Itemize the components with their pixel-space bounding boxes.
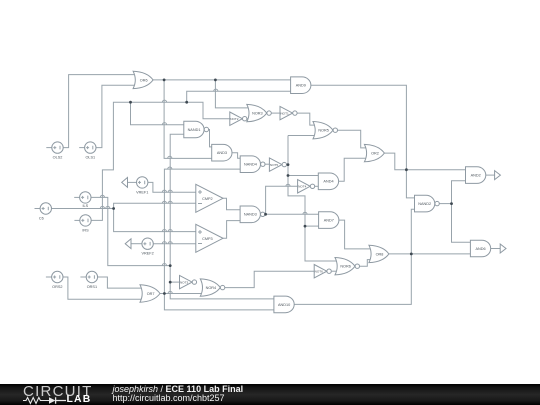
wire NOT6 output to NOR6 input B bbox=[332, 270, 341, 272]
node flag VREF1 bbox=[122, 178, 128, 188]
wire VREF1 to CMP2 plus input bbox=[148, 182, 197, 192]
nand-gate NAND3 bbox=[240, 206, 265, 223]
node OR6 output branch 2 bbox=[214, 79, 217, 82]
svg-text:NOT5: NOT5 bbox=[270, 163, 279, 167]
node NAND2 output bbox=[450, 202, 453, 205]
wire C6 left stub bbox=[35, 208, 41, 210]
inverter NOT2 bbox=[230, 112, 247, 125]
svg-text:NOT2: NOT2 bbox=[230, 117, 239, 121]
inverter NOT5 bbox=[269, 158, 286, 171]
svg-text:AND10: AND10 bbox=[278, 303, 290, 307]
wire hop crossover 17 bbox=[100, 206, 104, 208]
svg-text:NOT1: NOT1 bbox=[280, 111, 289, 115]
svg-text:NOR4: NOR4 bbox=[206, 286, 217, 290]
nand-gate NAND4 bbox=[240, 156, 265, 173]
svg-text:NAND1: NAND1 bbox=[188, 128, 201, 132]
or-gate OR7 bbox=[140, 285, 160, 302]
voltage source OLS2 bbox=[52, 142, 63, 160]
svg-text:NOR6: NOR6 bbox=[340, 265, 351, 269]
node NOT5 output bbox=[287, 163, 290, 166]
wire hop crossover 4 bbox=[168, 156, 172, 158]
and-gate AND7 bbox=[319, 212, 339, 229]
wire hop crossover 19 bbox=[303, 212, 307, 214]
wire hop crossover 16 bbox=[100, 195, 104, 197]
wire ORS2 left stub bbox=[46, 276, 52, 278]
wire OR6 output to AND9 input A bbox=[153, 79, 291, 81]
node ILS net at NOT3 column bbox=[169, 264, 172, 267]
svg-text:AND9: AND9 bbox=[296, 84, 306, 88]
wire OR8 output to AND6 input B bbox=[389, 253, 470, 255]
and-gate AND3 bbox=[212, 144, 232, 161]
wire NOT1 output to NOR5 input A bbox=[297, 113, 316, 125]
inverter NOT3 bbox=[180, 275, 197, 288]
wire hop crossover 2 bbox=[214, 89, 218, 91]
nor-gate NOR4 bbox=[200, 279, 225, 296]
svg-text:OLS2: OLS2 bbox=[53, 156, 63, 160]
wire CMP2 output to NAND3 input A bbox=[223, 198, 240, 209]
svg-text:IRS: IRS bbox=[82, 228, 89, 232]
wire NAND1 output to AND3 input A bbox=[208, 130, 211, 147]
wire OR2 output to node bbox=[385, 153, 407, 170]
wire hop crossover 1 bbox=[162, 100, 166, 102]
wire hop crossover 14 bbox=[162, 264, 166, 266]
svg-text:AND6: AND6 bbox=[476, 247, 486, 251]
and-gate AND4 bbox=[318, 173, 338, 190]
wire ORS2 to OR7 input B bbox=[63, 277, 144, 299]
output port at AND6 bbox=[500, 244, 506, 253]
wire hop crossover 20 bbox=[286, 184, 290, 186]
node OR6 output branch 1 bbox=[163, 79, 166, 82]
svg-text:OR6: OR6 bbox=[140, 78, 148, 82]
wire OLS1 left stub bbox=[79, 147, 84, 149]
wire ILS net to NAND1 input B bbox=[170, 134, 274, 299]
wire CMP3 output to NAND3 input B bbox=[223, 221, 240, 239]
node ILS net at NOT3 input bbox=[169, 281, 172, 284]
node IRS net at AND9 branch bbox=[185, 101, 188, 104]
node OR7 output bbox=[163, 292, 166, 295]
voltage source C6 bbox=[39, 203, 52, 221]
svg-text:CMP2: CMP2 bbox=[202, 197, 213, 201]
wire IRS to NOT2 input bbox=[91, 102, 230, 220]
svg-text:AND3: AND3 bbox=[217, 151, 227, 155]
wire OLS2 left stub bbox=[46, 147, 52, 149]
wire hop crossover 18 bbox=[106, 206, 110, 208]
wire AND7 output to OR8 input A bbox=[339, 220, 372, 249]
wire NOT2 output to NOR3 input B bbox=[247, 118, 250, 120]
voltage source IRS bbox=[80, 215, 91, 233]
or-gate OR6 bbox=[133, 71, 153, 88]
svg-text:NOT3: NOT3 bbox=[180, 280, 189, 284]
wire node IRS branch up to AND9 input B bbox=[187, 91, 291, 102]
wire ORS1 to OR7 input A bbox=[98, 277, 144, 288]
wire ILS down and right to node bbox=[91, 197, 170, 265]
svg-text:OR7: OR7 bbox=[147, 292, 155, 296]
svg-text:VREF1: VREF1 bbox=[136, 190, 148, 194]
svg-text:NAND3: NAND3 bbox=[244, 213, 257, 217]
wire NOT4 output to AND4 input B bbox=[315, 185, 318, 187]
inverter NOT6 bbox=[314, 265, 331, 278]
svg-text:CMP3: CMP3 bbox=[202, 237, 213, 241]
wire IRS left stub bbox=[74, 219, 79, 221]
and-gate AND2 bbox=[466, 167, 486, 184]
inverter NOT4 bbox=[298, 180, 315, 193]
wire OR7 net down to AND10 input B bbox=[164, 294, 274, 310]
wire hop crossover 3 bbox=[162, 123, 166, 125]
wire C6 to CMP3 plus input bbox=[114, 209, 197, 232]
voltage source ORS2 bbox=[52, 271, 63, 289]
CircuitLab logo resistor and diode symbol bbox=[22, 395, 70, 405]
voltage source OLS1 bbox=[85, 142, 96, 160]
wire C6 to node bbox=[52, 208, 114, 210]
wire NAND2 output down to AND6 input A bbox=[452, 204, 471, 243]
node C6 net bbox=[112, 207, 115, 210]
voltage source ORS1 bbox=[86, 271, 97, 289]
wire NAND3 output to AND7 input A bbox=[263, 213, 318, 215]
wire NAND4 output to NOT5 input bbox=[263, 163, 270, 165]
nand-gate NAND1 bbox=[184, 121, 209, 138]
svg-text:NOT6: NOT6 bbox=[315, 269, 324, 273]
svg-text:NAND4: NAND4 bbox=[244, 163, 257, 167]
svg-text:NOT4: NOT4 bbox=[298, 185, 307, 189]
nor-gate NOR3 bbox=[247, 104, 271, 121]
inverter NOT1 bbox=[280, 106, 297, 119]
voltage source ILS bbox=[80, 192, 91, 209]
CircuitLab logo text CIRCUIT bbox=[23, 386, 93, 397]
wire hop crossover 11 bbox=[168, 230, 172, 232]
wire hop crossover 5 bbox=[168, 167, 172, 169]
node OR2 output joins AND9 column bbox=[405, 168, 408, 171]
wire NOR6 output to OR8 input B bbox=[360, 260, 373, 267]
wire node to AND2 input A bbox=[406, 169, 465, 171]
node IRS net at NAND1 branch bbox=[129, 101, 132, 104]
node OR8 output joins AND10 column bbox=[410, 253, 413, 256]
wire VREF2 flag stub bbox=[131, 243, 142, 245]
wire OR7 net up to NAND4 input B bbox=[164, 169, 240, 293]
or-gate OR2 bbox=[364, 144, 384, 161]
nor-gate NOR5 bbox=[313, 122, 337, 139]
output port at AND2 bbox=[495, 171, 501, 180]
wire OR7 output to NOR4 input B bbox=[158, 293, 203, 295]
svg-text:AND7: AND7 bbox=[324, 219, 334, 223]
svg-text:OR2: OR2 bbox=[371, 152, 379, 156]
wire VREF1 flag stub bbox=[128, 181, 137, 183]
wire IRS branch to NAND1 input A bbox=[131, 102, 184, 125]
wire OLS2 to OR6 input A bbox=[63, 75, 137, 148]
wire hop crossover 9 bbox=[168, 201, 172, 203]
and-gate AND6 bbox=[470, 240, 490, 257]
svg-text:C6: C6 bbox=[39, 216, 44, 220]
node flag VREF2 bbox=[125, 239, 131, 249]
wire NAND2 output to node bbox=[438, 203, 451, 205]
wire ILS left stub bbox=[74, 196, 79, 198]
comparator CMP2 bbox=[196, 184, 223, 212]
voltage source VREF2 bbox=[141, 238, 153, 256]
wire hop crossover 13 bbox=[168, 242, 172, 244]
wire AND6 output to port bbox=[491, 248, 500, 250]
wire hop crossover 15 bbox=[168, 291, 172, 293]
svg-text:ILS: ILS bbox=[82, 204, 88, 208]
wire AND3 output to NAND4 input A bbox=[232, 153, 240, 159]
node NOT5 net at AND4 input bbox=[287, 174, 290, 177]
comparator CMP3 bbox=[196, 224, 223, 252]
wire NOT5 net to NOR5 input B bbox=[288, 135, 316, 137]
svg-text:OLS1: OLS1 bbox=[85, 156, 95, 160]
svg-text:NOR3: NOR3 bbox=[252, 112, 263, 116]
wire NOR4 output to NOT6 input bbox=[225, 271, 314, 287]
nand-gate NAND2 bbox=[415, 195, 440, 212]
wire OR6 output branch down to NOR3 input A bbox=[215, 80, 250, 108]
wire ILS net to NOT3 input bbox=[170, 281, 179, 283]
CircuitLab logo text LAB bbox=[67, 396, 92, 404]
svg-text:AND4: AND4 bbox=[323, 180, 333, 184]
svg-text:AND2: AND2 bbox=[471, 174, 481, 178]
svg-text:VREF2: VREF2 bbox=[141, 252, 153, 256]
wire NOT5 output stub bbox=[287, 164, 288, 166]
wire hop crossover 12 bbox=[162, 242, 166, 244]
wire AND9 output down to NAND2 input A bbox=[311, 85, 414, 198]
wire NOR5 output to OR2 input A bbox=[338, 130, 368, 148]
svg-text:OR8: OR8 bbox=[376, 252, 384, 256]
wire NOR3 output to NOT1 input bbox=[271, 112, 280, 114]
or-gate OR8 bbox=[369, 245, 389, 262]
wire NAND3 output branch to NOT4 input bbox=[266, 186, 298, 214]
wire AND4 output to OR2 input B bbox=[339, 158, 368, 181]
and-gate AND9 bbox=[291, 77, 311, 94]
svg-text:NAND2: NAND2 bbox=[418, 202, 431, 206]
wire NOT5 net to AND7 input B bbox=[305, 225, 319, 227]
footer credit text bbox=[113, 385, 244, 403]
nor-gate NOR6 bbox=[335, 258, 359, 275]
svg-text:NOR5: NOR5 bbox=[318, 129, 329, 133]
voltage source VREF1 bbox=[136, 177, 148, 195]
wire hop crossover 7 bbox=[168, 190, 172, 192]
svg-text:ORS2: ORS2 bbox=[52, 285, 62, 289]
wire OR6 output branch down to AND3 input B bbox=[164, 80, 212, 158]
wire OLS1 to OR6 input B bbox=[96, 85, 138, 147]
wire NOT5 net vertical with jog to NOR6 input A bbox=[288, 136, 340, 262]
svg-text:ORS1: ORS1 bbox=[87, 285, 97, 289]
wire hop crossover 8 bbox=[162, 201, 166, 203]
wire AND10 output to NAND2 input B bbox=[294, 209, 414, 304]
wire AND2 output to port bbox=[486, 174, 495, 176]
footer black bar bbox=[0, 384, 540, 405]
wire hop crossover 6 bbox=[162, 190, 166, 192]
wire C6 to CMP2 minus input bbox=[114, 203, 197, 208]
wire hop crossover 10 bbox=[162, 230, 166, 232]
wire VREF2 to CMP3 minus input bbox=[153, 243, 196, 245]
node NOT5 net at AND7 input bbox=[304, 225, 307, 228]
wire NOT5 net to AND4 input A bbox=[288, 175, 318, 177]
wire NAND2 output up to AND2 input B bbox=[452, 181, 466, 204]
and-gate AND10 bbox=[274, 296, 294, 313]
node NAND3 output bbox=[264, 213, 267, 216]
wire ORS1 left stub bbox=[80, 276, 86, 278]
